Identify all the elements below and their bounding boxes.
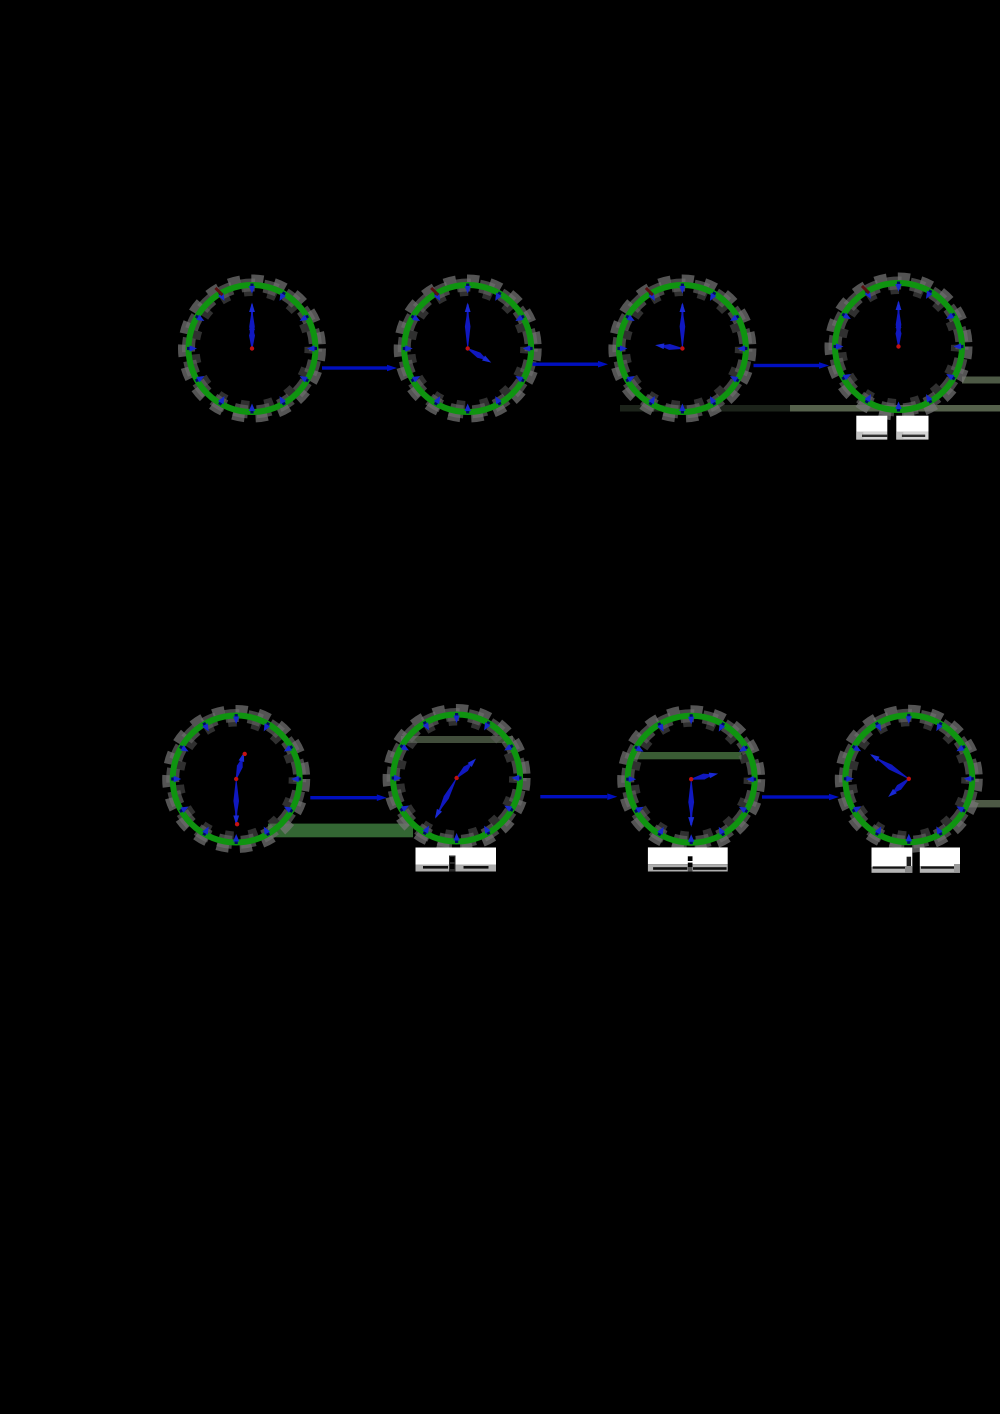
olive band right of clock4 row2	[968, 800, 1000, 807]
answer box right row1 clock4	[896, 416, 928, 440]
clock 4 row 1 (12:00)	[830, 278, 967, 415]
arrow row2 clock3->clock4	[762, 794, 839, 801]
answer box row2 clock2	[416, 848, 497, 872]
clock 1 row 2 (12:30 example, red handles)	[168, 711, 305, 848]
clock 3 row 1 (9:00)	[614, 280, 751, 417]
clock 2 row 1 (4:00)	[399, 280, 536, 417]
olive chord clock2 row2	[401, 736, 513, 743]
olive band right of clock4 row1	[962, 377, 1000, 384]
clock 2 row 2 (1:35)	[388, 710, 525, 847]
answer box left row2 clock4	[872, 848, 913, 873]
clock 4 row 2 (7:50)	[840, 710, 977, 847]
answer box row2 clock3	[648, 847, 728, 871]
olive band under row1 right side	[620, 405, 790, 412]
answer box left row1 clock4	[856, 416, 887, 440]
olive band between row2 clock1-clock2	[268, 824, 413, 838]
clock 3 row 2 (2:30)	[623, 711, 760, 848]
arrow row1 clock2->clock3	[533, 361, 608, 368]
arrow row1 clock1->clock2	[322, 365, 397, 372]
clock 1 row 1 (12:00)	[184, 280, 321, 417]
arrow row2 clock1->clock2	[310, 794, 387, 801]
answer box right row2 clock4	[920, 848, 960, 873]
arrow row1 clock3->clock4	[754, 362, 830, 369]
olive chord clock3 row2	[630, 752, 742, 759]
arrow row2 clock2->clock3	[540, 793, 617, 800]
